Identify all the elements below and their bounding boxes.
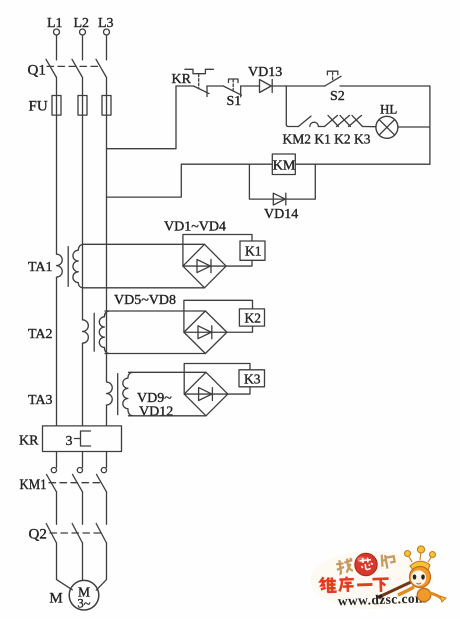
wire bridge3 DC+ to K3 [228, 387, 250, 394]
fuse FU (3 poles) [29, 96, 112, 116]
watermark glyph 一 (red, drawn strokes) [357, 583, 372, 587]
svg-text:KM1: KM1 [20, 477, 47, 493]
svg-text:M: M [49, 591, 62, 607]
switch Q2 [29, 524, 107, 543]
svg-text:VD5~VD8: VD5~VD8 [114, 293, 176, 308]
wire Q1 to FU pole2 [82, 78, 84, 96]
wire Q1 to FU pole1 [56, 78, 58, 96]
wire bridge2 DC+ to K2 [227, 326, 253, 332]
mascot face [411, 570, 426, 585]
wire L2 column [82, 115, 84, 320]
svg-text:3: 3 [66, 434, 73, 449]
transformer TA2 [28, 311, 109, 354]
svg-text:VD1~VD4: VD1~VD4 [164, 220, 226, 235]
svg-text:VD12: VD12 [139, 405, 173, 420]
wire KM1 to Q2 pole1 [56, 492, 58, 524]
wire KR box stub 2 [82, 452, 84, 468]
fixed contact hook 1 [51, 468, 56, 473]
svg-text:TA1: TA1 [28, 260, 53, 275]
svg-text:Q2: Q2 [29, 527, 47, 543]
wire KM coil branch from L3 [107, 164, 273, 197]
thermal contact KR [172, 69, 224, 96]
lamp HL [376, 102, 398, 139]
svg-text:L1: L1 [47, 16, 63, 31]
wire TA2 secondary bottom [105, 353, 205, 355]
wire right vertical [429, 86, 431, 164]
wire TA2 secondary top [105, 310, 205, 312]
transformer TA1 [28, 244, 83, 287]
svg-text:FU: FU [29, 99, 48, 115]
wire L1 below TA1 [56, 277, 58, 426]
contact KM2 [286, 116, 324, 126]
wire TA3 secondary bottom [129, 415, 207, 417]
svg-text:3~: 3~ [77, 597, 90, 611]
svg-text:TA3: TA3 [28, 393, 53, 408]
mascot hand [440, 596, 446, 602]
watermark glyph 片 (tan, drawn strokes) [380, 553, 395, 570]
pushbutton S2 [325, 71, 430, 104]
label VD9~ VD12 [137, 391, 173, 420]
wire TA1 secondary bottom [83, 287, 205, 289]
wire L2 below TA2 [82, 343, 84, 426]
wire L1 column [56, 115, 58, 254]
diode VD13 [248, 65, 325, 93]
svg-text:KR: KR [19, 434, 39, 449]
bridge rectifier VD9~VD12 [184, 372, 228, 416]
mascot pen [381, 582, 411, 596]
wire KM1 to Q2 pole2 [82, 492, 84, 524]
watermark glyph 找 (tan, drawn strokes) [336, 558, 354, 574]
svg-text:S1: S1 [227, 94, 242, 109]
svg-text:TA2: TA2 [28, 327, 53, 342]
wire Q1 to FU pole3 [106, 78, 108, 96]
motor M 3~ [49, 580, 98, 610]
svg-text:K1: K1 [245, 244, 262, 259]
wire bridge1 DC- rail [183, 235, 252, 267]
wire Q2 to motor 2 [82, 543, 84, 580]
svg-text:VD14: VD14 [264, 207, 298, 222]
mascot right arm [430, 593, 442, 599]
wire KM coil to right vertical [295, 163, 430, 165]
switch Q1 [28, 59, 107, 78]
wire Q2 to motor 3 [96, 543, 106, 590]
wire L1 lead [56, 35, 58, 60]
pushbutton S1 [223, 79, 259, 109]
svg-text:HL: HL [380, 102, 397, 117]
svg-text:www.dzsc.com: www.dzsc.com [338, 590, 428, 608]
mascot mouth [417, 583, 422, 584]
wire L3 below TA3 [106, 405, 108, 426]
wire L3 column [106, 115, 108, 382]
mascot eyes [413, 574, 417, 579]
diode VD14 (freewheel across KM) [249, 164, 315, 222]
contact K1 (NO) [325, 115, 339, 126]
relay coil K2 [239, 309, 264, 326]
thermal relay KR heater box [19, 426, 122, 452]
mascot crown [405, 546, 436, 570]
terminal L2 [74, 16, 90, 35]
transformer TA3 [28, 372, 133, 416]
wire L3 lead [106, 35, 108, 60]
wire L2 lead [82, 35, 84, 60]
contact K2 (NO) [337, 115, 351, 126]
terminal L1 [47, 16, 63, 35]
svg-text:Q1: Q1 [28, 63, 46, 79]
watermark glyph 库 (red, drawn strokes) [339, 576, 354, 592]
svg-text:VD13: VD13 [248, 65, 282, 80]
svg-text:K2: K2 [245, 311, 262, 326]
fixed contact hook 2 [77, 468, 82, 473]
wire Q2 to motor 1 [57, 543, 73, 590]
relay coil K1 [240, 241, 265, 260]
terminal L3 [98, 16, 114, 35]
svg-text:KR: KR [172, 72, 192, 87]
wire KR box stub 3 [106, 452, 108, 468]
svg-text:K3: K3 [244, 372, 261, 387]
wire to lamp [363, 126, 377, 128]
svg-text:KM2 K1 K2 K3: KM2 K1 K2 K3 [283, 133, 371, 148]
wire TA1 secondary top [83, 243, 205, 245]
bridge rectifier VD5~VD8 [184, 311, 227, 354]
wire control branch from L3 to KR [107, 86, 177, 149]
svg-text:L2: L2 [74, 16, 90, 31]
watermark halo [310, 551, 434, 609]
watermark logo circle [355, 553, 377, 575]
mascot body [417, 588, 431, 601]
svg-text:KM: KM [273, 158, 296, 173]
mascot head [410, 567, 431, 588]
watermark group (dzsc.com) [310, 546, 446, 609]
wire bridge1 DC+ to K1 [226, 260, 252, 266]
contactor KM1 main contacts [20, 474, 107, 493]
wire lamp to right vertical [398, 126, 430, 128]
wire TA3 secondary top [129, 371, 207, 373]
mascot left arm [398, 587, 414, 595]
svg-text:L3: L3 [98, 16, 114, 31]
contactor coil KM [272, 154, 296, 175]
svg-text:S2: S2 [330, 89, 345, 104]
fixed contact hook 3 [101, 468, 106, 473]
wire KM1 to Q2 pole3 [106, 492, 108, 524]
watermark glyph 芯 (white, drawn strokes) [359, 557, 373, 570]
relay coil K3 [239, 370, 265, 387]
wire bridge2 DC- rail [184, 300, 253, 332]
watermark glyph 下 (red, drawn strokes) [372, 579, 389, 593]
bridge rectifier VD1~VD4 [183, 244, 226, 287]
contact K3 (NO) [349, 115, 363, 126]
watermark glyph 维 (red, drawn strokes) [320, 577, 336, 592]
wire bridge3 DC- rail [184, 364, 250, 395]
wire KR box stub 1 [56, 452, 58, 468]
wire branch to lamp row [285, 86, 287, 125]
